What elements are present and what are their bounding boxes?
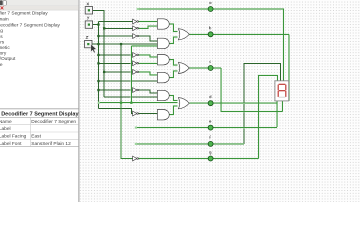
wire trunk Y vertical <box>97 22 99 109</box>
wire row not7 input <box>98 89 132 91</box>
wire start dot net f <box>135 143 137 145</box>
AND gate A4 <box>157 72 169 82</box>
svg-text:Label Font: Label Font <box>0 141 22 147</box>
wire net g return <box>259 75 278 158</box>
OR gate O2 <box>178 62 189 73</box>
svg-text:/Output: /Output <box>0 56 16 62</box>
wire row and5 lower input <box>104 96 157 98</box>
attribute table <box>0 109 79 147</box>
wire row not4 input <box>98 54 132 56</box>
wire row not3 input <box>98 35 132 37</box>
svg-text:Label: Label <box>0 126 11 132</box>
wire net a row and drop <box>138 9 284 81</box>
NOT gate G7 <box>133 88 139 93</box>
wire start dot net a <box>137 8 139 10</box>
wire trunk Z vertical lower and not9 input <box>121 103 133 159</box>
NOT gate G5 <box>133 61 139 66</box>
AND gate A2 <box>157 38 169 48</box>
wire row not2 input <box>104 27 133 29</box>
wire and5 output <box>169 96 177 101</box>
NOT gate G4 <box>133 53 139 58</box>
wire or1 output / net b row <box>189 33 289 35</box>
junction dots <box>97 23 122 91</box>
junction dots bright trunk <box>120 102 133 104</box>
output pin e <box>208 121 213 130</box>
svg-text:e: e <box>0 63 3 68</box>
NOT gate G1 <box>133 19 139 24</box>
wire row not6 input <box>104 71 133 73</box>
NOT gate G2 <box>133 26 139 31</box>
wire row to not8 via corner <box>98 109 132 114</box>
svg-text:Name: Name <box>0 119 12 125</box>
AND gate A3 <box>157 55 169 65</box>
wire row and4 lower input <box>98 80 157 82</box>
wire net f row <box>136 143 244 145</box>
NOT gate G6 <box>133 70 139 75</box>
wire not9 output / net g row <box>138 158 259 160</box>
wire trunk Z vertical upper <box>120 44 122 103</box>
svg-text:nain: nain <box>0 16 9 22</box>
wire row not1 input <box>98 21 132 23</box>
toolbar fragment with cropped icons <box>0 0 79 10</box>
svg-text:netic: netic <box>0 45 10 51</box>
wire and6 output <box>169 106 177 115</box>
wire net f return dark part <box>244 63 281 143</box>
wire not3 output jog <box>138 36 157 41</box>
toolbar red close icon <box>1 6 4 9</box>
NOT gate G3 <box>133 34 139 39</box>
svg-text:Label Facing: Label Facing <box>0 134 27 140</box>
input pin Z <box>85 36 92 48</box>
svg-text:SansSerif Plain 12: SansSerif Plain 12 <box>31 141 71 147</box>
NOT gate G9 <box>133 156 139 161</box>
input pin Y <box>85 17 92 29</box>
input pin X <box>85 3 92 14</box>
wire pin y stub <box>93 24 98 26</box>
wire or3 output / net d row <box>189 102 277 104</box>
wire net c bottom pin stub <box>281 101 283 112</box>
output pin b <box>208 26 213 37</box>
wire net e row <box>136 127 277 129</box>
wire row not5 input <box>98 62 132 64</box>
svg-text:East: East <box>31 134 41 140</box>
attribute table cell text <box>0 119 76 147</box>
output pin a <box>208 2 213 12</box>
wire not4 output jog <box>138 55 157 57</box>
OR gate O1 <box>178 29 189 40</box>
svg-text:Decodifier 7 Segment Display: Decodifier 7 Segment Display <box>1 112 79 118</box>
svg-text:fier 7 Segment Display: fier 7 Segment Display <box>0 11 48 17</box>
wire not5 output <box>138 62 157 64</box>
wire start dot net e <box>135 127 137 129</box>
wire and1 output <box>169 24 177 32</box>
output pin f <box>208 136 213 147</box>
wire not8 output <box>138 113 157 115</box>
svg-text:ory: ory <box>0 51 7 57</box>
svg-text:g: g <box>0 29 3 34</box>
wire and2 output <box>169 37 177 43</box>
wire pin x to trunk <box>93 9 104 11</box>
mouse cursor <box>91 44 97 53</box>
wire not2 output jog <box>138 26 157 28</box>
wire start dot or3 middle row <box>98 102 100 104</box>
AND gate A6 <box>157 110 169 120</box>
wire row and2 lower input <box>131 45 157 47</box>
wire not1 output <box>138 21 157 23</box>
wire net d/e shared bottom pin vertical <box>276 101 278 127</box>
wire row or3 middle input <box>99 102 178 104</box>
wire or2 output / net c row <box>189 67 221 69</box>
wire pin z row to and2 <box>92 43 157 45</box>
NOT gate G8 <box>133 111 139 116</box>
wire trunk X vertical <box>103 10 105 97</box>
left panel background <box>0 0 79 202</box>
wire and4 output <box>169 71 177 78</box>
svg-text:ecodifier 7 Segment Display: ecodifier 7 Segment Display <box>0 22 60 28</box>
wire and3 output <box>169 60 177 65</box>
wire net c return <box>221 68 282 112</box>
output pin d <box>208 95 213 106</box>
OR gate O3 <box>178 98 189 109</box>
svg-text:Decodifier 7 Segmen: Decodifier 7 Segmen <box>31 119 76 125</box>
explorer tree labels (left-cropped) <box>0 11 61 68</box>
wire net b vertical drop <box>288 34 290 101</box>
wire bright trunk vertical to not8 input <box>130 46 132 103</box>
output pin g <box>208 152 213 161</box>
output pin c <box>208 61 213 71</box>
AND gate A5 <box>157 90 169 100</box>
wire not6 output jog <box>138 72 157 75</box>
seven segment display U1 <box>275 81 289 101</box>
wire not7 output jog <box>138 90 157 93</box>
svg-text:rs: rs <box>0 39 5 45</box>
AND gate A1 <box>157 19 169 29</box>
